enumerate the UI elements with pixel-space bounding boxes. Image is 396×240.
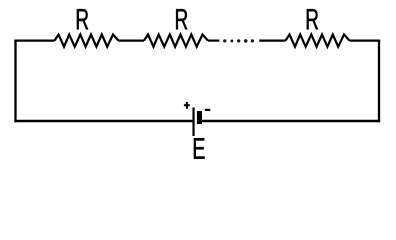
wire: R3 to top-right corner (350, 39, 381, 41)
wire: R1 to R2 (119, 39, 145, 41)
wire: R2 to dotted gap (208, 39, 219, 41)
label E (194, 138, 205, 159)
wire: top-left corner to R1 (14, 39, 54, 41)
battery E: positive plate (long thin) (192, 108, 194, 137)
label R (R2) (176, 9, 187, 29)
dotted wire continuation (ellipsis dots) (223, 39, 254, 43)
resistor R2 (144, 35, 208, 47)
resistor R3 (286, 35, 350, 47)
battery E: negative plate (short thick) (197, 111, 202, 124)
battery polarity: minus sign (205, 109, 210, 111)
resistor R1 (55, 35, 119, 47)
wire: right side (378, 40, 380, 123)
wire: bottom-left corner to battery (14, 120, 192, 122)
battery polarity: plus sign (184, 102, 190, 109)
wire: dotted gap to R3 (259, 39, 285, 41)
label R (R1) (77, 9, 88, 29)
label R (R3) (307, 9, 318, 29)
wire: battery to bottom-right corner (202, 120, 380, 122)
wire: left side (14, 40, 16, 123)
